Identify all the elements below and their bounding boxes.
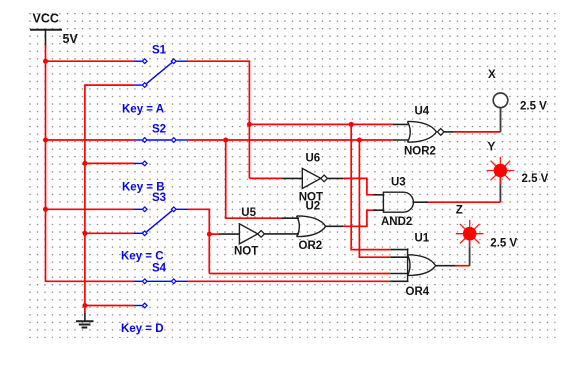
wire ground rail xyxy=(85,85,134,313)
OR gate U1 xyxy=(408,248,436,282)
svg-text:NOR2: NOR2 xyxy=(404,145,436,157)
node ground-S2 junction xyxy=(82,161,87,166)
node net B to OR4 junction xyxy=(357,138,362,143)
AND gate U3 xyxy=(383,192,413,212)
svg-text:Y: Y xyxy=(488,141,496,153)
svg-text:S1: S1 xyxy=(152,44,167,56)
svg-text:Key = A: Key = A xyxy=(122,103,164,115)
svg-text:Key = C: Key = C xyxy=(121,250,164,262)
node ground-S3 junction xyxy=(82,231,87,236)
wire net A to U6 input xyxy=(249,177,303,179)
wire ground to S2 throw xyxy=(85,162,134,164)
wire net C to U5 input xyxy=(209,233,240,235)
wire net C to OR4 input C xyxy=(209,273,408,275)
wire U4 output to probe X xyxy=(444,131,501,133)
switch S1 xyxy=(134,59,188,88)
probe X xyxy=(493,93,508,132)
svg-text:S2: S2 xyxy=(152,123,166,135)
LED Z xyxy=(456,220,484,266)
node net A to U4 junction xyxy=(247,122,252,127)
node VCC-S1 junction xyxy=(43,59,48,64)
wire net B to OR4 input B xyxy=(359,140,408,257)
wire net D from S4 to OR4 input D xyxy=(188,280,409,282)
NOR gate U4 xyxy=(408,121,445,142)
svg-text:OR4: OR4 xyxy=(406,286,430,298)
wire net B from S2 to U4 input B xyxy=(188,139,410,141)
LED Y xyxy=(487,157,515,203)
svg-text:5V: 5V xyxy=(63,32,79,46)
svg-text:U2: U2 xyxy=(306,201,321,213)
wire U2 output to U3 input B xyxy=(326,210,385,226)
svg-text:NOT: NOT xyxy=(234,246,258,258)
svg-text:S4: S4 xyxy=(152,262,167,274)
svg-text:Z: Z xyxy=(456,204,463,216)
wire net B to U2 input A xyxy=(226,140,299,218)
ground xyxy=(76,313,94,328)
wire net A from S1 xyxy=(188,61,250,178)
OR gate U2 xyxy=(297,216,326,237)
power VCC xyxy=(30,30,62,46)
svg-text:U5: U5 xyxy=(241,207,256,219)
wire U6 output to U3 input A xyxy=(327,178,384,194)
svg-text:Key = D: Key = D xyxy=(121,323,164,335)
node ground-S4 junction xyxy=(82,303,87,308)
wire ground to S3 throw xyxy=(85,232,134,234)
switch S2 xyxy=(134,138,188,166)
NOT gate U6 xyxy=(302,168,327,188)
svg-text:U3: U3 xyxy=(391,176,406,188)
wire VCC to S2 xyxy=(46,139,134,141)
wire U5 output to U2 input B xyxy=(264,233,299,235)
node VCC-S2 junction xyxy=(43,138,48,143)
svg-text:U1: U1 xyxy=(415,232,430,244)
switch S3 xyxy=(134,207,188,236)
wire U3 output to LED Y xyxy=(413,201,500,203)
switch S4 xyxy=(134,279,188,308)
node net A to OR4 junction xyxy=(349,122,354,127)
wire VCC rail xyxy=(46,45,134,281)
wire net A to OR4 input A xyxy=(351,124,408,249)
svg-text:OR2: OR2 xyxy=(299,240,323,252)
wire net C from S3 xyxy=(188,209,210,273)
NOT gate U5 xyxy=(239,224,264,244)
wire U1 output to LED Z xyxy=(436,265,470,267)
wire VCC to S3 xyxy=(46,208,134,210)
wire ground to S4 throw xyxy=(85,305,134,307)
svg-text:2.5 V: 2.5 V xyxy=(490,237,517,249)
wire VCC to S1 xyxy=(46,60,134,62)
node net C to U5 junction xyxy=(207,232,212,237)
svg-text:2.5 V: 2.5 V xyxy=(520,101,547,113)
svg-text:S3: S3 xyxy=(152,192,166,204)
svg-text:U6: U6 xyxy=(306,153,321,165)
svg-text:X: X xyxy=(488,69,496,81)
node net B to U2 junction xyxy=(223,138,228,143)
wire net A to U4 input A xyxy=(249,123,409,125)
node VCC-S3 junction xyxy=(43,207,48,212)
svg-text:2.5 V: 2.5 V xyxy=(522,173,549,185)
svg-text:AND2: AND2 xyxy=(381,216,412,228)
svg-text:VCC: VCC xyxy=(33,12,59,26)
svg-text:U4: U4 xyxy=(415,105,430,117)
